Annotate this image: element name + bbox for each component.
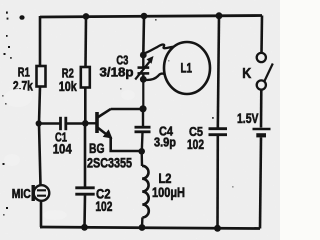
- light scan smudges: [4, 89, 135, 220]
- wire left column mid: [39, 87, 40, 124]
- wire tank column upper: [142, 16, 145, 55]
- node top rail R2: [83, 13, 90, 20]
- node collector: [139, 105, 146, 112]
- wire switch to battery: [260, 90, 263, 128]
- wire left column bottom: [40, 201, 41, 227]
- svg-text:2SC3355: 2SC3355: [87, 156, 132, 171]
- svg-text:3.9p: 3.9p: [154, 135, 176, 150]
- wire R2 column mid: [84, 88, 87, 124]
- node bottom rail C5: [214, 225, 221, 232]
- svg-text:BG: BG: [89, 141, 105, 156]
- node top rail C5: [216, 12, 223, 19]
- svg-text:1.5V: 1.5V: [237, 110, 259, 126]
- inductor L2: [142, 151, 185, 227]
- node tank top: [140, 52, 147, 59]
- wire top rail: [40, 16, 262, 18]
- node emitter: [138, 148, 145, 155]
- wire battery to bottom rail: [260, 138, 261, 229]
- svg-text:MIC: MIC: [12, 186, 31, 201]
- node top rail tank: [141, 13, 148, 20]
- capacitor C5: [187, 124, 227, 152]
- wire tank to collector node: [142, 79, 144, 108]
- svg-text:R1: R1: [18, 65, 30, 80]
- resistor R1: [13, 65, 46, 94]
- capacitor C2: [75, 187, 112, 215]
- wire bottom rail: [40, 227, 260, 229]
- wire C5 to bottom rail: [216, 135, 219, 228]
- node tank bottom: [140, 76, 147, 83]
- wire C5 column upper: [218, 16, 219, 129]
- trimmer capacitor C3: [100, 53, 154, 80]
- node bottom rail C2: [81, 224, 88, 231]
- transistor Q1 BG 2SC3355: [87, 109, 142, 171]
- svg-text:10k: 10k: [59, 79, 77, 94]
- scan specks: [2, 12, 234, 216]
- svg-text:L1: L1: [181, 59, 193, 75]
- wire R2 column to C2: [84, 124, 87, 189]
- svg-text:L2: L2: [159, 171, 172, 186]
- resistor R2: [59, 66, 90, 94]
- capacitor C4: [135, 109, 177, 152]
- capacitor C1: [39, 117, 85, 157]
- switch K: [242, 53, 272, 90]
- node left column / C1 junction: [36, 120, 42, 126]
- svg-text:100μH: 100μH: [152, 185, 185, 200]
- svg-text:104: 104: [53, 141, 72, 156]
- node base junction: [82, 120, 89, 127]
- svg-text:102: 102: [187, 137, 204, 152]
- wire R2 column upper: [84, 16, 87, 67]
- wire left column lower: [39, 124, 41, 186]
- svg-text:102: 102: [95, 198, 112, 214]
- wire C2 to bottom rail: [83, 195, 86, 228]
- battery BT 1.5V: [237, 110, 271, 135]
- microphone MIC: [12, 185, 50, 201]
- wire left column upper: [39, 16, 42, 67]
- node bottom rail L2: [139, 224, 146, 231]
- inductor L1: [144, 42, 210, 94]
- wire right column upper: [260, 16, 263, 53]
- svg-text:3/18p: 3/18p: [100, 64, 134, 79]
- wire base lead: [85, 122, 95, 124]
- svg-text:K: K: [242, 66, 251, 82]
